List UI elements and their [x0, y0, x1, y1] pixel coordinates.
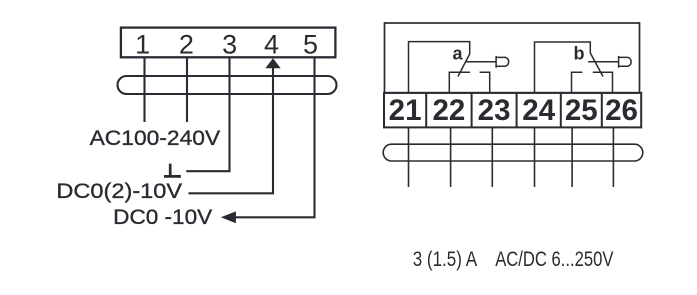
wire below terminal 25 [571, 127, 573, 187]
wire below terminal 23 [491, 127, 493, 187]
ground symbol [164, 164, 181, 177]
svg-text:24: 24 [522, 94, 555, 127]
svg-text:a: a [453, 44, 464, 64]
svg-text:4: 4 [264, 30, 279, 60]
svg-text:1: 1 [135, 30, 150, 60]
svg-text:22: 22 [432, 94, 465, 127]
svg-text:3: 3 [222, 30, 237, 60]
wire 1 [143, 57, 145, 122]
cable grommet left [118, 76, 337, 94]
switch b cam symbol [619, 56, 632, 68]
svg-text:2: 2 [179, 30, 194, 60]
switch a contact 22 [449, 72, 470, 93]
svg-text:AC100-240V: AC100-240V [90, 126, 221, 150]
wire below terminal 24 [534, 127, 536, 187]
switch a contact 23 [480, 72, 490, 93]
switch a blade [458, 54, 470, 77]
wire below terminal 22 [450, 127, 452, 187]
terminal row 21-26 [384, 93, 641, 128]
wire 4 arrowhead (into terminal 4) [265, 58, 280, 68]
svg-text:DC0 -10V: DC0 -10V [113, 205, 213, 229]
switch a cam symbol [496, 56, 509, 68]
svg-text:23: 23 [478, 94, 511, 127]
wire 5 [234, 57, 315, 217]
wire riser terminal 21 to switch a common [409, 42, 470, 93]
cable grommet right [383, 144, 643, 161]
switch b link to cam [588, 61, 619, 63]
wire below terminal 21 [408, 127, 410, 187]
switch a link to cam [466, 61, 496, 63]
wire 3 [186, 57, 229, 171]
wire below terminal 26 [612, 127, 614, 187]
svg-text:5: 5 [303, 30, 318, 60]
svg-text:AC/DC 6...250V: AC/DC 6...250V [495, 248, 613, 271]
svg-text:b: b [574, 44, 585, 64]
svg-text:3 (1.5) A: 3 (1.5) A [413, 248, 477, 271]
wire riser terminal 24 to switch b common [535, 42, 591, 93]
aux switch block outer box [385, 23, 640, 93]
svg-text:25: 25 [565, 94, 598, 127]
switch b blade [590, 53, 603, 77]
wire 2 [186, 57, 188, 122]
svg-text:DC0(2)-10V: DC0(2)-10V [56, 179, 182, 203]
switch b contact 25 [572, 72, 583, 93]
svg-text:26: 26 [605, 94, 638, 127]
svg-text:21: 21 [389, 94, 422, 127]
terminal box 1-5 [121, 28, 336, 58]
switch b contact 26 [593, 72, 613, 93]
wire 4 [189, 64, 274, 193]
wire 5 arrowhead (to DC0-10V) [221, 211, 236, 223]
